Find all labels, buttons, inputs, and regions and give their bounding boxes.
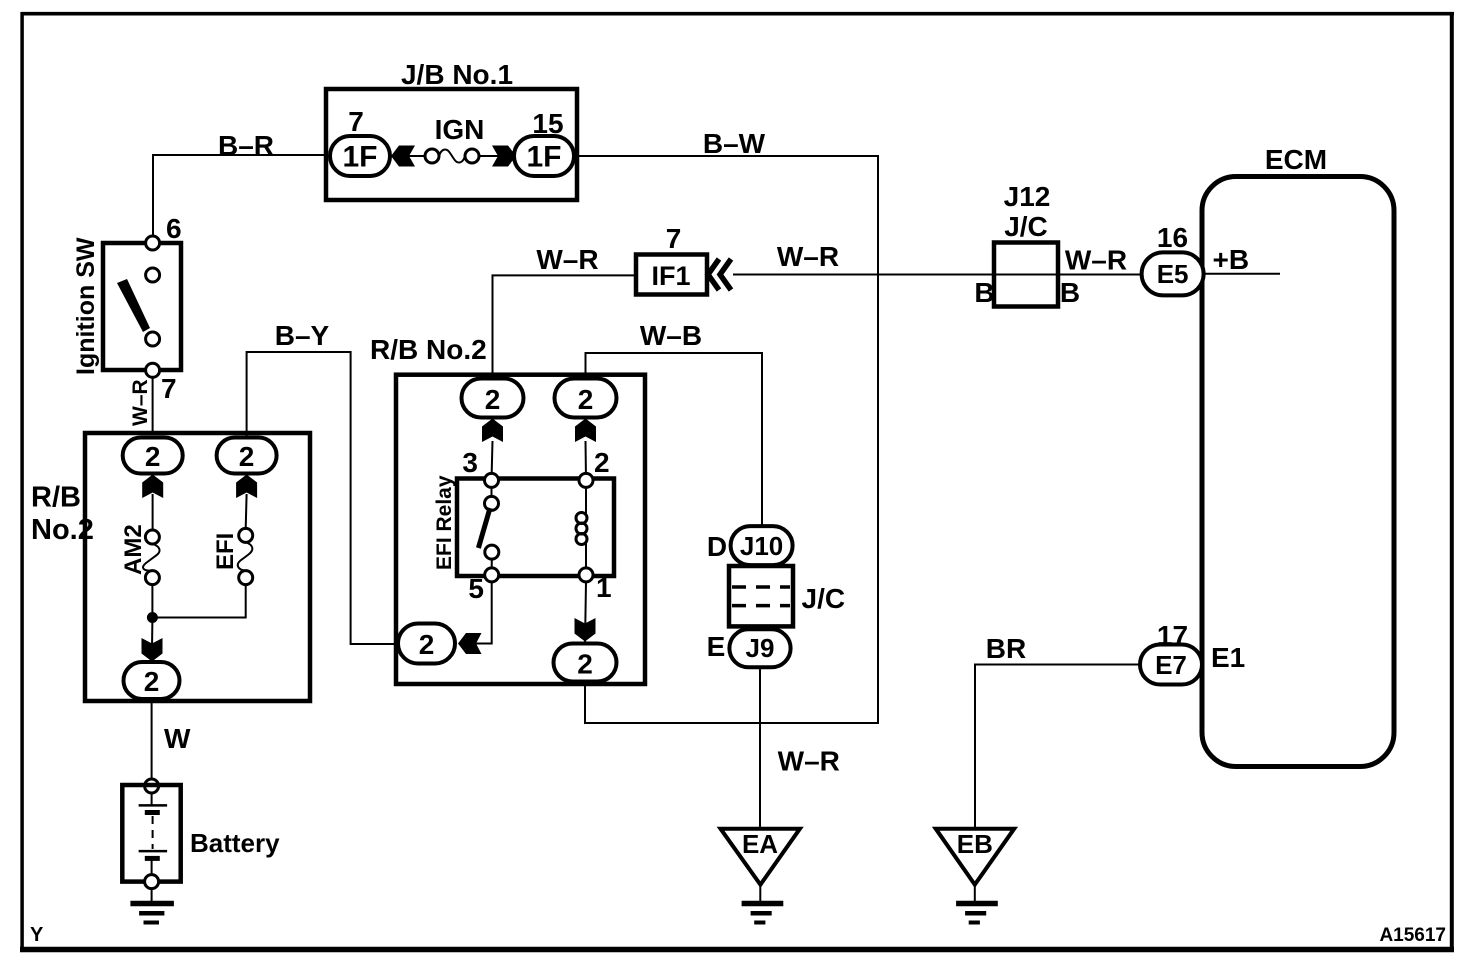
wires to relay terminals: [492, 441, 493, 480]
wire W-R from relay to IF1: [493, 275, 637, 378]
relay switch: [491, 487, 493, 497]
svg-text:AM2: AM2: [120, 524, 147, 575]
svg-text:5: 5: [468, 573, 484, 604]
svg-text:B–R: B–R: [218, 130, 274, 161]
svg-text:IGN: IGN: [435, 114, 485, 145]
svg-text:E: E: [707, 631, 726, 662]
relay terminal 3: [485, 473, 499, 487]
svg-text:E1: E1: [1211, 642, 1245, 673]
relay block R/B No.2 (EFI relay): [396, 375, 645, 684]
svg-text:EFI Relay: EFI Relay: [433, 475, 456, 570]
svg-text:2: 2: [485, 384, 501, 415]
arrow left: [458, 633, 482, 654]
ground EA: [721, 829, 800, 885]
connector IF1: [636, 255, 707, 295]
svg-text:IF1: IF1: [651, 261, 690, 291]
svg-text:EB: EB: [957, 829, 993, 859]
svg-text:1F: 1F: [526, 141, 561, 174]
svg-text:W–R: W–R: [777, 241, 839, 272]
svg-text:W–B: W–B: [640, 320, 702, 351]
svg-text:2: 2: [144, 666, 160, 697]
svg-text:7: 7: [666, 223, 682, 254]
svg-text:D: D: [707, 531, 727, 562]
svg-text:EA: EA: [742, 829, 778, 859]
svg-text:1: 1: [596, 572, 612, 603]
svg-text:Battery: Battery: [190, 828, 280, 858]
connector 2 (top right): [555, 379, 617, 418]
svg-text:W: W: [164, 723, 191, 754]
svg-text:3: 3: [462, 447, 478, 478]
svg-text:B: B: [974, 277, 994, 308]
svg-text:Ignition SW: Ignition SW: [72, 237, 100, 375]
connector 1F pin 7: [330, 136, 390, 176]
svg-text:B–W: B–W: [703, 128, 766, 159]
svg-text:2: 2: [145, 441, 161, 472]
connector 2 (bottom): [124, 662, 180, 699]
svg-text:EFI: EFI: [212, 533, 239, 570]
svg-text:E7: E7: [1155, 650, 1187, 680]
relay block R/B No.2 (fuse block): [85, 433, 310, 701]
wire EFI to junction: [152, 585, 245, 618]
svg-text:B: B: [1060, 277, 1080, 308]
relay terminal 5: [485, 568, 499, 582]
connector 2 (bottom left): [398, 624, 455, 664]
junction node: [147, 612, 158, 623]
svg-text:W–R: W–R: [129, 379, 152, 426]
wire B-R from J/B No.1 to Ignition SW terminal 6: [153, 155, 326, 237]
svg-text:ECM: ECM: [1265, 144, 1327, 175]
svg-text:2: 2: [594, 447, 610, 478]
wire terminal 1 to connector: [585, 582, 586, 644]
connector 1F pin 15: [514, 136, 574, 176]
svg-text:6: 6: [166, 213, 182, 244]
svg-text:R/B No.2: R/B No.2: [370, 334, 487, 365]
terminal 6: [146, 236, 160, 250]
fuse EFI: [245, 494, 248, 528]
ground EB: [936, 829, 1015, 885]
svg-text:2: 2: [239, 441, 255, 472]
fuse AM2: [152, 494, 154, 530]
J/C box: [729, 566, 793, 626]
connector 2 (top right): [217, 438, 277, 474]
wire W-R from IF1 to J12: [733, 274, 994, 276]
connector 2 (top left): [462, 379, 524, 418]
svg-text:1F: 1F: [342, 141, 377, 174]
svg-text:W–R: W–R: [1065, 245, 1127, 276]
wire W-R ignition to R/B: [152, 377, 154, 434]
wire terminal 5 to connector: [460, 582, 492, 644]
svg-text:2: 2: [577, 649, 593, 680]
wire BR from E7 to EB ground: [975, 665, 1140, 830]
chevrons: [708, 259, 719, 290]
arrow up: [575, 419, 596, 443]
svg-text:J10: J10: [740, 531, 783, 561]
wire B-Y from EFI fuse to relay block: [247, 352, 398, 644]
svg-text:BR: BR: [986, 633, 1026, 664]
battery: [145, 779, 159, 793]
svg-text:B–Y: B–Y: [275, 320, 330, 351]
relay terminal 2: [579, 473, 593, 487]
wire B-W from J/B No.1 pin 15 to bottom of R/B No.2 relay block: [574, 156, 878, 723]
EFI relay box: [457, 479, 614, 577]
svg-text:A15617: A15617: [1379, 925, 1446, 946]
arrow up: [236, 475, 257, 499]
ground below battery: [151, 889, 153, 902]
connector E7 pin 17 (E1): [1140, 645, 1202, 685]
svg-text:J/C: J/C: [802, 583, 846, 614]
connector E5 pin 16 (+B): [1203, 273, 1280, 275]
svg-text:16: 16: [1157, 222, 1188, 253]
connector J10: [731, 526, 793, 565]
switch blade: [117, 279, 150, 332]
arrow up: [482, 419, 503, 443]
svg-text:15: 15: [532, 108, 563, 139]
arrow down: [142, 638, 163, 662]
wire W-B from relay to J10: [586, 353, 763, 527]
svg-text:E5: E5: [1157, 259, 1189, 289]
svg-text:2: 2: [578, 384, 594, 415]
ECM: [1202, 177, 1394, 767]
connector 2 (top left): [123, 438, 183, 474]
svg-text:2: 2: [419, 629, 435, 660]
svg-text:W–R: W–R: [778, 746, 840, 777]
connector J9: [729, 629, 790, 667]
svg-text:J9: J9: [746, 633, 775, 663]
switch contact upper: [146, 268, 160, 282]
wire AM2 to junction: [151, 585, 153, 620]
svg-text:No.2: No.2: [31, 514, 94, 546]
connector 2 (bottom right): [554, 644, 617, 682]
svg-text:7: 7: [348, 106, 364, 137]
arrow down: [575, 618, 596, 642]
wire W from R/B No.2 to battery: [151, 699, 153, 780]
svg-text:J/C: J/C: [1004, 211, 1048, 242]
terminal 7: [146, 363, 160, 377]
svg-text:W–R: W–R: [536, 244, 598, 275]
svg-text:+B: +B: [1213, 244, 1250, 275]
svg-text:J12: J12: [1004, 181, 1051, 212]
svg-text:7: 7: [161, 373, 177, 404]
relay coil: [585, 487, 587, 514]
svg-text:J/B No.1: J/B No.1: [401, 59, 513, 90]
switch contact lower: [146, 332, 160, 346]
junction block J/B No.1: [326, 89, 577, 200]
ignition switch: [103, 243, 181, 370]
relay terminal 1: [579, 568, 593, 582]
svg-text:Y: Y: [30, 924, 44, 946]
junction connector J12 J/C: [994, 274, 1142, 276]
svg-text:R/B: R/B: [31, 482, 81, 514]
svg-text:17: 17: [1157, 620, 1188, 651]
wire W-R from J9 to EA ground: [759, 668, 761, 830]
arrow up: [142, 475, 163, 499]
